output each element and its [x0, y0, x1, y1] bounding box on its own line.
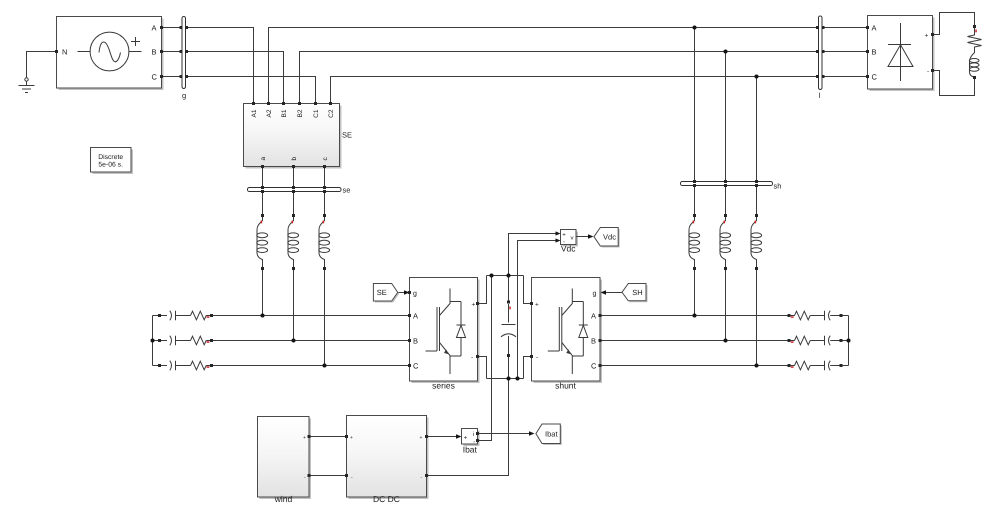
svg-text:C: C [872, 72, 878, 81]
svg-text:A1: A1 [251, 109, 258, 117]
svg-text:+: + [464, 435, 468, 441]
svg-text:Vdc: Vdc [561, 244, 576, 254]
svg-text:SE: SE [342, 131, 352, 140]
svg-text:+: + [303, 435, 306, 441]
svg-text:C: C [591, 361, 597, 370]
svg-text:shunt: shunt [555, 381, 576, 391]
svg-text:+: + [535, 301, 539, 308]
svg-text:C: C [152, 72, 158, 81]
svg-text:v: v [571, 235, 574, 241]
svg-text:B: B [591, 336, 596, 345]
svg-text:a: a [260, 157, 267, 161]
svg-text:g: g [413, 290, 417, 297]
svg-text:A: A [152, 23, 157, 32]
svg-text:g: g [593, 290, 597, 297]
svg-text:Discrete: Discrete [98, 154, 123, 161]
svg-text:A: A [872, 23, 877, 32]
svg-text:A: A [413, 311, 418, 320]
svg-text:A2: A2 [266, 109, 273, 117]
svg-text:B: B [152, 47, 157, 56]
svg-text:wind: wind [274, 494, 293, 504]
svg-text:C: C [413, 361, 419, 370]
svg-text:SE: SE [377, 288, 387, 297]
svg-text:sh: sh [774, 182, 782, 191]
svg-text:N: N [62, 47, 67, 56]
svg-text:B2: B2 [297, 109, 304, 117]
svg-text:i: i [473, 431, 474, 438]
svg-text:b: b [291, 157, 298, 161]
svg-text:B: B [413, 336, 418, 345]
svg-text:+: + [472, 301, 476, 308]
svg-text:+: + [925, 32, 929, 39]
svg-text:+: + [420, 435, 423, 441]
svg-text:Vdc: Vdc [603, 233, 616, 242]
svg-text:B1: B1 [281, 109, 288, 117]
svg-text:SH: SH [632, 288, 642, 297]
svg-text:+: + [562, 232, 566, 238]
svg-text:-: - [536, 354, 538, 361]
svg-text:B: B [872, 47, 877, 56]
svg-text:series: series [432, 381, 455, 391]
svg-text:-: - [471, 354, 473, 361]
svg-text:+: + [350, 435, 353, 441]
svg-text:C1: C1 [313, 109, 320, 118]
svg-text:C2: C2 [328, 109, 335, 118]
svg-text:DC DC: DC DC [373, 494, 400, 504]
svg-text:g: g [182, 91, 186, 100]
svg-text:Ibat: Ibat [463, 445, 478, 455]
svg-text:l: l [819, 91, 821, 100]
svg-text:se: se [343, 186, 351, 195]
svg-text:5e-06 s.: 5e-06 s. [98, 162, 123, 169]
svg-text:Ibat: Ibat [545, 430, 558, 439]
svg-text:-: - [927, 69, 929, 76]
svg-text:A: A [591, 311, 596, 320]
